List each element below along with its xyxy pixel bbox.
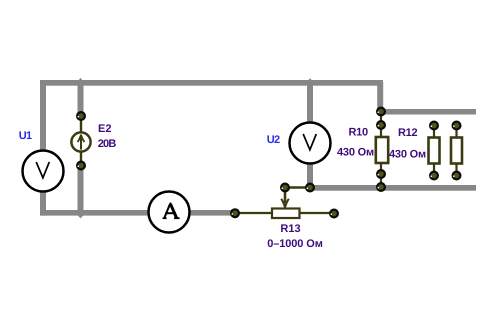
- rheostat R13 wiper: [281, 188, 310, 208]
- node: E2 bottom terminal: [76, 161, 86, 171]
- node: right resistor bottom terminal: [452, 171, 462, 181]
- svg-text:0–1000 Ом: 0–1000 Ом: [267, 238, 323, 250]
- svg-text:430 Ом: 430 Ом: [337, 147, 374, 159]
- node: R10 bottom terminal: [376, 169, 386, 179]
- wire E2 branch upper: [78, 82, 84, 118]
- svg-text:R10: R10: [349, 126, 368, 138]
- wire bottom bus: [40, 210, 236, 216]
- wire left vertical: [40, 80, 46, 216]
- wire top bus: [40, 80, 383, 86]
- wire lower right bus: [307, 185, 476, 191]
- voltmeter U2: [290, 123, 331, 164]
- wire E2 branch lower: [78, 163, 84, 216]
- wire top bus right leg: [377, 82, 383, 114]
- resistor (unlabeled, right) body: [451, 126, 462, 176]
- resistor R10 body: [376, 111, 388, 187]
- junction pip U2 top: [308, 78, 312, 80]
- node: R12 top terminal: [429, 121, 439, 131]
- node: right resistor top terminal: [452, 121, 462, 131]
- svg-text:E2: E2: [98, 123, 111, 135]
- wire upper right bus: [377, 109, 476, 115]
- resistor R12 body: [429, 126, 440, 176]
- svg-text:430 Ом: 430 Ом: [389, 149, 426, 161]
- wire U2 branch upper: [307, 82, 313, 124]
- svg-text:20В: 20В: [98, 138, 117, 150]
- ammeter A1: [149, 192, 190, 233]
- junction pip E2 top: [78, 78, 82, 81]
- node: R13 right terminal: [329, 209, 339, 219]
- node: R12 bottom terminal: [429, 171, 439, 181]
- rheostat R13 body: [235, 209, 334, 219]
- svg-text:R12: R12: [398, 127, 417, 139]
- junction pip E2 bottom: [78, 215, 84, 218]
- node: U2/wiper junction: [305, 183, 315, 193]
- svg-text:U2: U2: [267, 134, 280, 146]
- node: E2 top terminal: [76, 111, 86, 121]
- node: R10 top bus junction: [376, 107, 386, 117]
- source E2: [71, 116, 90, 166]
- svg-text:R13: R13: [280, 223, 300, 235]
- voltmeter U1: [23, 151, 64, 192]
- node: R10 bottom bus junction: [376, 182, 386, 192]
- svg-text:U1: U1: [19, 130, 32, 142]
- node: R13 wiper terminal: [280, 183, 290, 193]
- node: R13 left terminal: [230, 208, 240, 218]
- wire U2 branch lower: [307, 160, 313, 191]
- node: R10 top terminal: [376, 120, 386, 130]
